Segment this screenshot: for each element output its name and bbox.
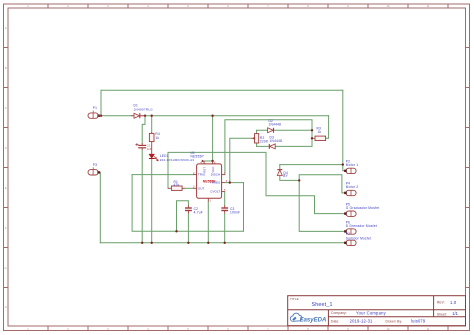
wire: D3 line y=146.4	[257, 138, 312, 146]
svg-text:A: A	[5, 26, 7, 30]
wire: LED1 cathode down to bus	[151, 160, 153, 243]
svg-text:1/1: 1/1	[452, 311, 458, 316]
svg-text:EasyEDA: EasyEDA	[300, 317, 327, 323]
svg-text:NE555P: NE555P	[203, 179, 216, 183]
wire: ground bus y=242.8	[100, 242, 345, 244]
LED LED1	[149, 143, 158, 160]
pin 7 DISCH stub	[222, 174, 225, 176]
svg-text:4.7uF: 4.7uF	[194, 211, 203, 215]
svg-text:TRIG: TRIG	[198, 173, 206, 177]
component labels	[93, 104, 380, 241]
svg-text:1.0: 1.0	[450, 300, 457, 305]
svg-text:OUT: OUT	[198, 186, 205, 190]
svg-text:H: H	[5, 305, 7, 309]
svg-text:E: E	[5, 186, 7, 190]
svg-text:luis079: luis079	[411, 319, 426, 324]
resistor R1	[168, 186, 185, 190]
connector P6	[344, 229, 356, 234]
svg-text:1N4448: 1N4448	[269, 123, 282, 127]
svg-text:1k: 1k	[155, 136, 159, 140]
wire: node X tie between D2 and D3 lines	[311, 130, 313, 138]
svg-text:REV:: REV:	[437, 301, 445, 305]
IC U1 NE555P body	[193, 161, 225, 201]
wire: drain junction up and across to P4 motor2	[299, 175, 345, 193]
svg-text:1N4007RLG: 1N4007RLG	[134, 107, 154, 111]
wire: vertical x=342.8 down to motor1 node	[342, 90, 344, 164]
svg-text:1N4448: 1N4448	[270, 139, 283, 143]
wire: OUT pin to R1 right	[185, 187, 194, 189]
svg-text:D Drenador Mosfet: D Drenador Mosfet	[346, 224, 377, 228]
wire: THRES junction line y=182.6	[225, 182, 244, 184]
wire: DISCH riser and top link to node X	[225, 120, 312, 175]
wire: motor1 node down to P2 pin	[343, 165, 345, 171]
svg-text:Sheet_1: Sheet_1	[312, 302, 333, 308]
svg-text:G Graduador Mosfet: G Graduador Mosfet	[346, 206, 380, 210]
wire: RST VCC tie bar y=161	[204, 160, 213, 162]
svg-text:Date:: Date:	[331, 320, 339, 324]
wire: pot top lead	[256, 130, 258, 133]
wire: pot wiper to THRES junction	[230, 138, 252, 182]
svg-text:Motor 1: Motor 1	[346, 163, 359, 167]
capacitor C2	[185, 205, 192, 213]
net arrow at RST stub	[202, 160, 205, 163]
wire: vertical from P1 junction up to top rail	[100, 90, 102, 115]
connector P2	[344, 168, 356, 173]
wire: C2 bottom to ground bus	[187, 213, 189, 242]
wire: C1 bottom down to bus	[141, 150, 143, 243]
diode D2	[268, 128, 274, 133]
svg-text:DISCH: DISCH	[211, 173, 221, 177]
svg-text:G: G	[5, 266, 7, 270]
diode Q4	[277, 170, 282, 176]
svg-text:1uF: 1uF	[147, 147, 152, 151]
title block	[288, 296, 466, 326]
svg-text:TITLE:: TITLE:	[290, 297, 300, 301]
svg-text:Drawn By:: Drawn By:	[386, 320, 403, 324]
wire: C3 bottom to bus	[224, 213, 226, 242]
wire: OUT gate path R1 left up across and to P5	[168, 152, 345, 213]
wire: VCC feed from rail down to 555 top	[212, 116, 214, 161]
wire: GND pin down to bus	[207, 201, 209, 242]
connector P5	[344, 211, 356, 216]
pin 1 GND stub	[207, 198, 209, 201]
potentiometer R2	[252, 134, 259, 143]
connector P7	[344, 240, 356, 245]
svg-text:CVOLT: CVOLT	[210, 190, 220, 194]
wire: Q4 top stub	[279, 165, 281, 169]
wire: R3 left lead to node X	[312, 137, 315, 139]
pin 2 TRIG stub	[193, 174, 196, 176]
wire: R4 branch from rail	[151, 116, 153, 132]
wire: THRES riser x=243.5	[243, 183, 245, 232]
capacitor C3	[221, 205, 228, 213]
wire: drain junction down to P6 drenador	[299, 180, 345, 231]
label C1	[147, 144, 152, 151]
svg-text:2019-12-31: 2019-12-31	[350, 319, 373, 324]
IC U1 pin names	[198, 167, 220, 194]
pin 4 RST stub	[203, 161, 205, 164]
svg-text:204-10SURD/S530-A3: 204-10SURD/S530-A3	[160, 158, 195, 162]
svg-text:B: B	[5, 66, 7, 70]
wire: C1 branch jog from rail	[142, 116, 145, 143]
connector P3	[88, 167, 100, 175]
connector P1	[88, 111, 101, 119]
svg-text:Motor 2: Motor 2	[346, 185, 359, 189]
svg-text:VCC: VCC	[211, 167, 215, 173]
resistor R3	[315, 136, 326, 140]
svg-text:NE555P: NE555P	[191, 154, 204, 158]
diode D1	[131, 113, 145, 118]
wire: CVOLT to C3 top	[224, 192, 226, 206]
connector P4	[344, 190, 356, 195]
IC U1 pin numbers	[193, 161, 228, 202]
wire: motor1 node horizontal y=164.6 from Q4 top	[280, 164, 343, 166]
capacitor C1 polarized	[135, 143, 146, 150]
svg-text:D: D	[5, 146, 7, 150]
svg-text:Your Company: Your Company	[356, 311, 387, 316]
svg-text:Surtidor Mosfet: Surtidor Mosfet	[346, 236, 371, 240]
wire: C2 top branch from node 176.5,231.3	[177, 201, 189, 232]
svg-text:1k: 1k	[318, 130, 322, 134]
pin 3 OUT stub	[193, 187, 196, 189]
svg-text:P1: P1	[93, 106, 97, 110]
wire: pot bottom lead	[256, 143, 258, 146]
svg-text:Company:: Company:	[331, 311, 347, 315]
svg-text:BY: BY	[283, 174, 288, 178]
diode D3	[269, 144, 275, 149]
wire: main +V rail y=115.7 from P1 junction to R3 drop	[101, 115, 329, 117]
pin 8 VCC stub	[212, 161, 214, 164]
svg-text:47k: 47k	[174, 183, 180, 187]
svg-text:P3: P3	[93, 163, 97, 167]
EasyEDA logo	[290, 313, 326, 323]
junction dots	[100, 115, 344, 245]
pin 5 CVOLT stub	[222, 191, 225, 193]
wire: R3 right lead up to rail	[326, 116, 329, 139]
wire: top rail y=90.3 to motor branch	[101, 89, 343, 91]
wire: TRIG down and along y=231.3 to THRES riser	[132, 175, 243, 232]
wire: D2 line y=130.3	[257, 129, 312, 131]
pin 6 THRES stub	[222, 182, 225, 184]
resistor R4	[149, 132, 154, 143]
svg-text:C: C	[5, 106, 7, 110]
wire: P3 to bus corner	[98, 172, 100, 243]
svg-text:Sheet:: Sheet:	[437, 312, 447, 316]
svg-text:100nF: 100nF	[230, 211, 240, 215]
wire: Q4 bottom to drain junction	[280, 176, 299, 181]
wire: TRIG pin line y=174.6	[132, 174, 193, 176]
svg-text:220K: 220K	[260, 139, 269, 143]
